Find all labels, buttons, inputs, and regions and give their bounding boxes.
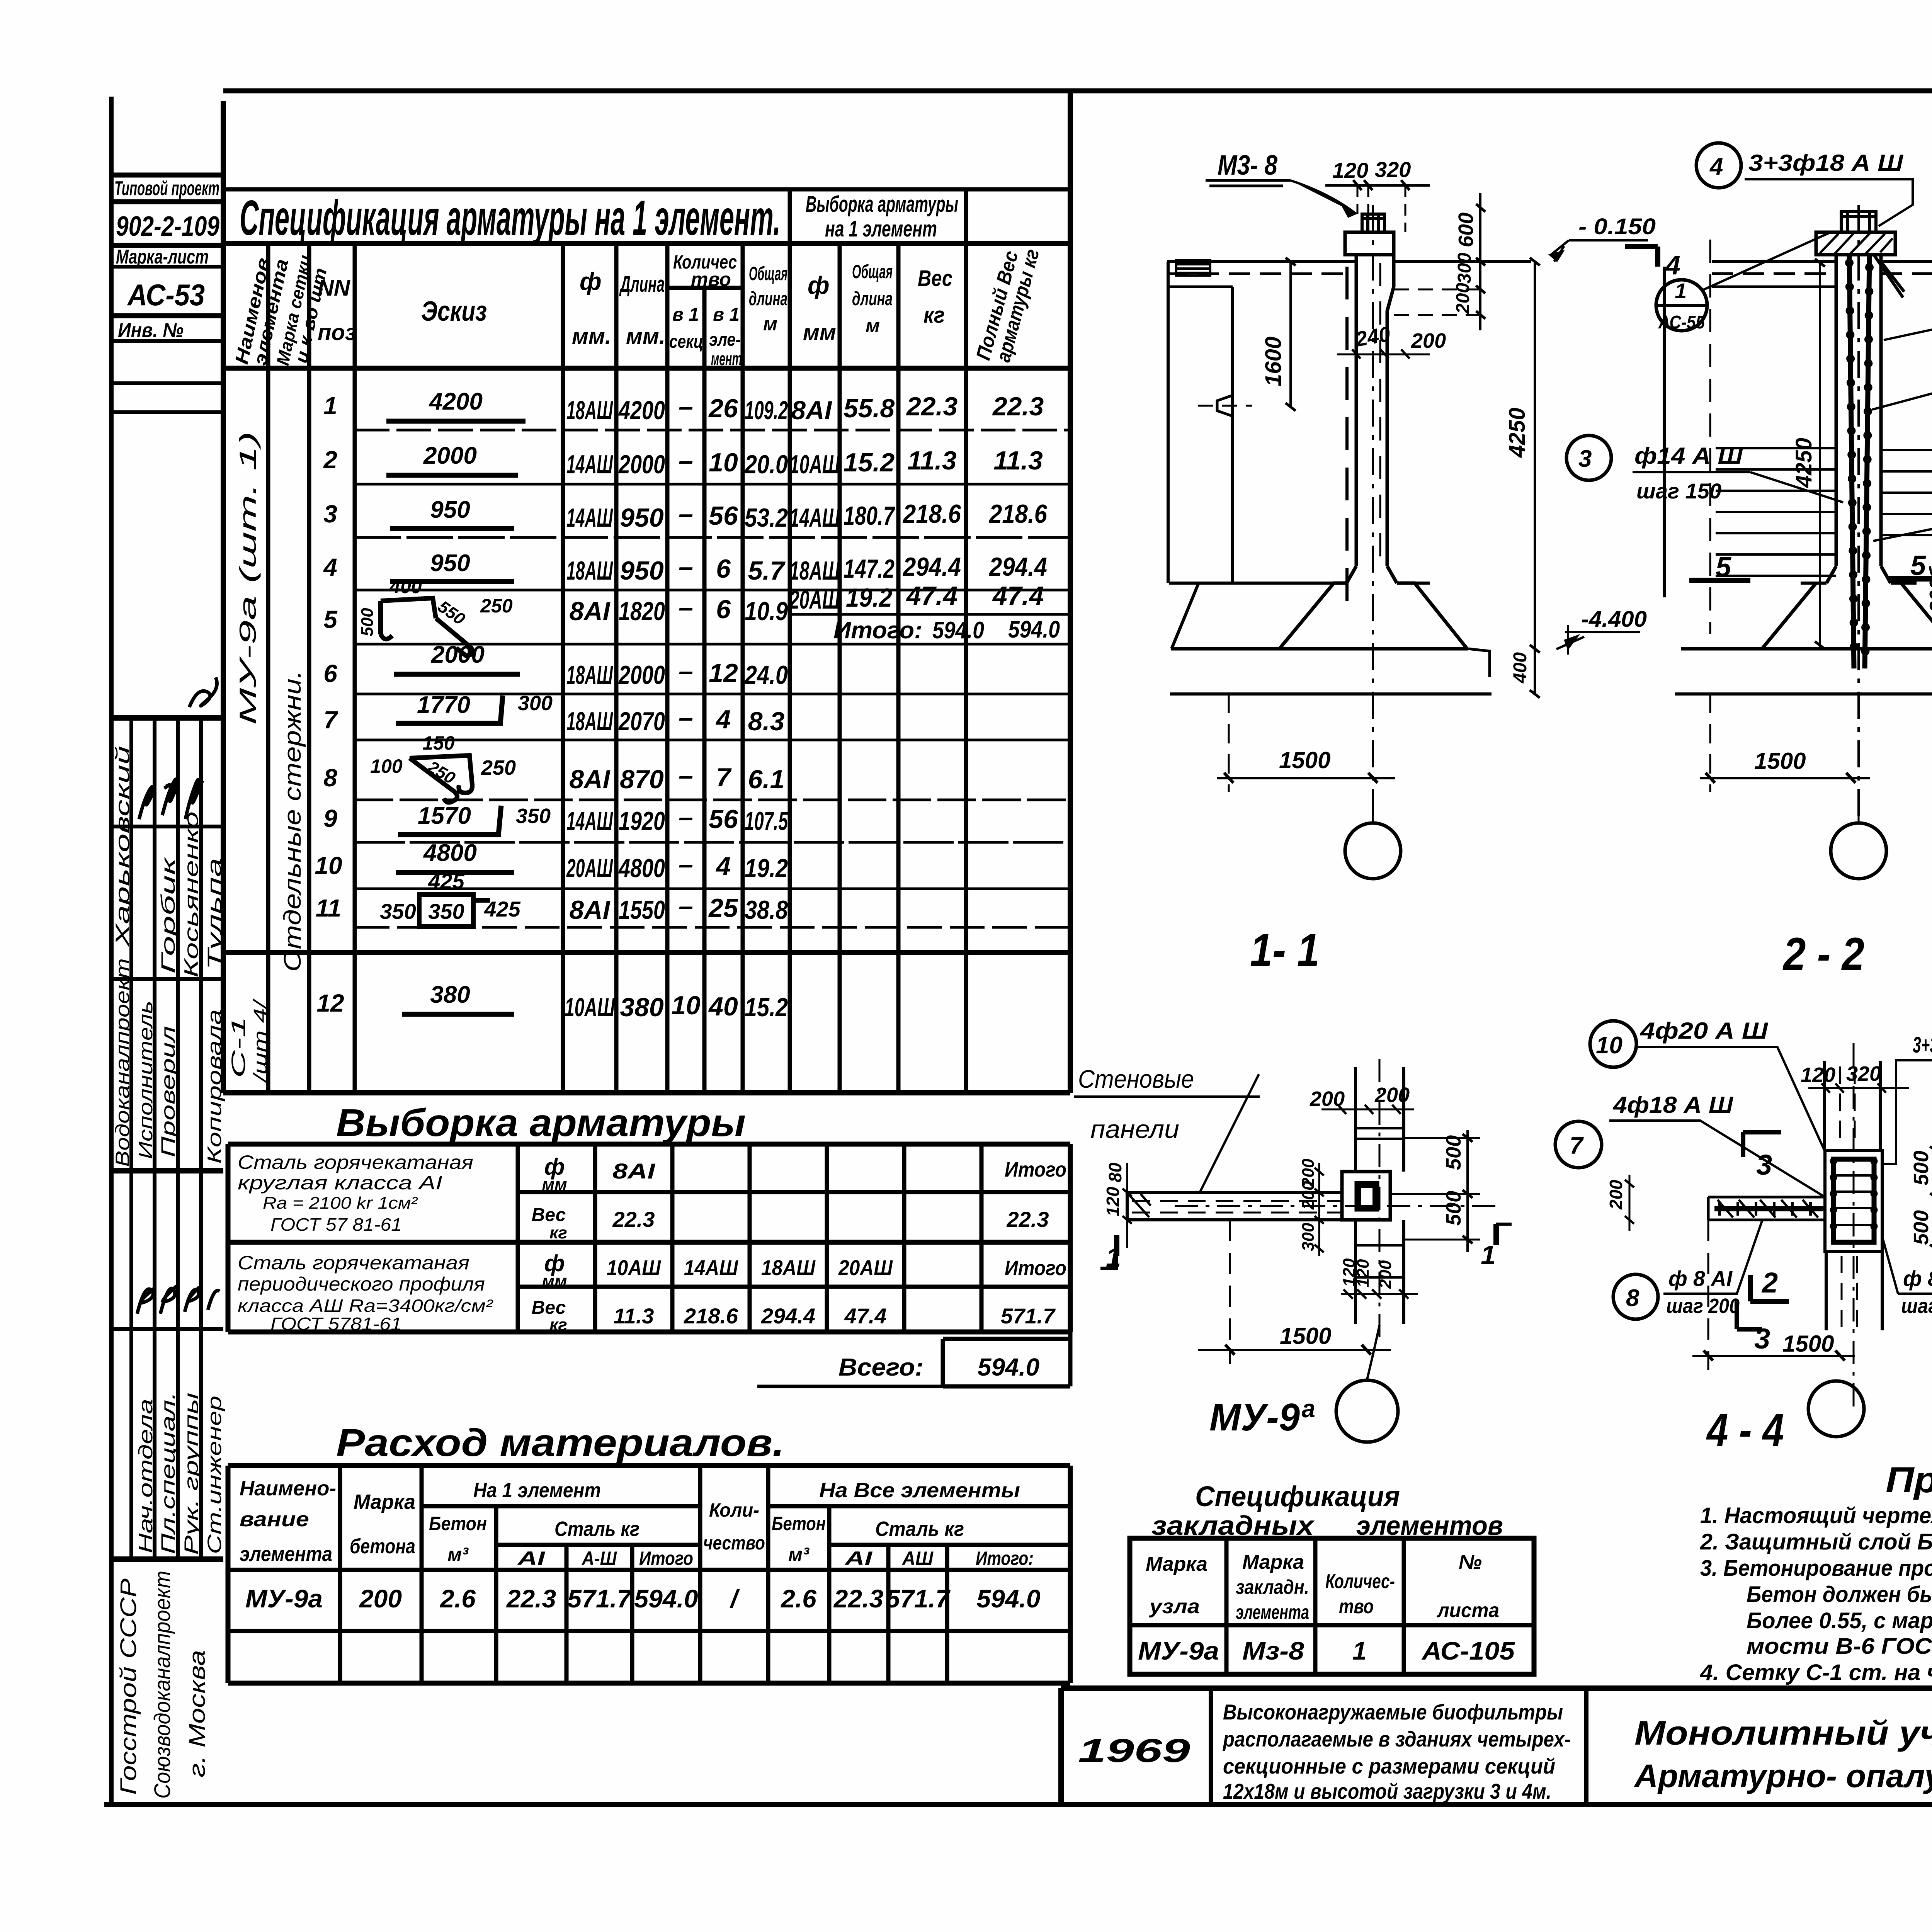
svg-text:1500: 1500 — [1279, 747, 1330, 773]
svg-text:ГОСТ 57 81-61: ГОСТ 57 81-61 — [270, 1214, 402, 1235]
svg-text:571.7: 571.7 — [567, 1584, 632, 1613]
svg-text:200: 200 — [1374, 1083, 1410, 1107]
svg-text:200: 200 — [1606, 1180, 1626, 1210]
svg-text:14АШ: 14АШ — [566, 806, 613, 836]
svg-text:в 1: в 1 — [713, 304, 740, 325]
svg-text:500: 500 — [1910, 1151, 1932, 1185]
svg-text:200: 200 — [359, 1584, 402, 1613]
svg-text:4ф18 А Ш: 4ф18 А Ш — [1613, 1092, 1733, 1118]
svg-text:Спецификация: Спецификация — [1195, 1480, 1400, 1512]
svg-text:м: м — [763, 313, 777, 335]
svg-text:1500: 1500 — [1782, 1331, 1834, 1357]
svg-text:350: 350 — [428, 899, 464, 923]
svg-text:22.3: 22.3 — [612, 1207, 655, 1231]
svg-text:Ст.инженер: Ст.инженер — [204, 1396, 225, 1554]
svg-text:571.7: 571.7 — [1001, 1304, 1056, 1328]
svg-text:2000: 2000 — [431, 641, 485, 668]
svg-text:22.3: 22.3 — [1007, 1207, 1049, 1231]
svg-text:4: 4 — [1709, 153, 1723, 180]
svg-text:10АШ: 10АШ — [789, 450, 840, 479]
svg-text:кг: кг — [549, 1223, 567, 1242]
svg-text:19.2: 19.2 — [745, 854, 788, 883]
svg-text:–: – — [679, 703, 693, 732]
svg-text:18АШ: 18АШ — [761, 1255, 816, 1280]
svg-text:Союзводоканалпроект: Союзводоканалпроект — [150, 1571, 175, 1799]
svg-text:47.4: 47.4 — [992, 581, 1044, 611]
svg-text:А-Ш: А-Ш — [581, 1548, 617, 1569]
svg-text:3: 3 — [1754, 1323, 1770, 1355]
svg-text:4250: 4250 — [1791, 438, 1816, 488]
svg-text:380: 380 — [620, 993, 664, 1022]
svg-text:Проверил: Проверил — [157, 1026, 179, 1157]
svg-text:10: 10 — [671, 991, 701, 1020]
svg-text:218.6: 218.6 — [684, 1304, 738, 1328]
svg-text:Исполнитель: Исполнитель — [135, 1001, 156, 1159]
svg-text:56: 56 — [709, 501, 738, 531]
svg-text:NN: NN — [318, 276, 350, 301]
svg-text:Итого:: Итого: — [976, 1548, 1034, 1569]
svg-text:АС-105: АС-105 — [1421, 1636, 1515, 1665]
svg-text:элемента: элемента — [1236, 1601, 1309, 1624]
svg-text:20АШ: 20АШ — [566, 854, 613, 883]
svg-text:4: 4 — [323, 553, 337, 581]
svg-text:18АШ: 18АШ — [566, 396, 613, 425]
svg-text:М3- 8: М3- 8 — [1218, 150, 1277, 181]
svg-text:Сталь горячекатаная: Сталь горячекатаная — [238, 1151, 473, 1173]
svg-text:1550: 1550 — [619, 895, 665, 925]
svg-text:6: 6 — [716, 554, 731, 583]
svg-text:круглая класса АI: круглая класса АI — [238, 1172, 442, 1194]
svg-text:15.2: 15.2 — [844, 448, 895, 477]
svg-text:11: 11 — [316, 894, 341, 922]
svg-text:200: 200 — [1376, 1260, 1395, 1289]
svg-text:4200: 4200 — [618, 396, 665, 425]
svg-text:шаг 150: шаг 150 — [1636, 479, 1721, 503]
svg-text:950: 950 — [620, 503, 664, 532]
svg-text:594.0: 594.0 — [634, 1584, 698, 1613]
svg-text:Марка: Марка — [354, 1490, 415, 1514]
svg-text:870: 870 — [620, 765, 664, 794]
svg-text:8АI: 8АI — [570, 895, 611, 925]
svg-text:МУ-9ª: МУ-9ª — [1209, 1396, 1315, 1439]
svg-text:1. Настоящий чертеж расст: 1. Настоящий чертеж расстатривать совмес… — [1700, 1503, 1932, 1528]
svg-text:7: 7 — [323, 706, 338, 734]
svg-text:55.8: 55.8 — [844, 394, 895, 423]
svg-text:Горбик: Горбик — [157, 856, 179, 974]
svg-text:5: 5 — [323, 605, 338, 633]
svg-text:5: 5 — [1716, 552, 1731, 583]
svg-text:1500: 1500 — [1754, 748, 1806, 774]
svg-text:120: 120 — [1801, 1063, 1835, 1087]
svg-text:Всего:: Всего: — [838, 1353, 923, 1381]
svg-text:Бетон должен быть плотным,: Бетон должен быть плотным, с водоцементн… — [1747, 1582, 1932, 1607]
svg-text:г. Москва: г. Москва — [185, 1650, 210, 1777]
svg-text:425: 425 — [428, 869, 464, 893]
svg-text:12х18м и высотой загрузки: 12х18м и высотой загрузки 3 и 4м. — [1223, 1779, 1551, 1803]
svg-text:1: 1 — [1352, 1636, 1367, 1665]
svg-text:19.2: 19.2 — [846, 583, 892, 612]
svg-text:№: № — [1459, 1551, 1482, 1573]
svg-text:250: 250 — [481, 756, 516, 779]
svg-text:-4.400: -4.400 — [1581, 607, 1647, 632]
svg-text:МУ-9а: МУ-9а — [245, 1584, 323, 1613]
svg-text:8АI: 8АI — [612, 1159, 656, 1183]
svg-text:Сталь кг: Сталь кг — [875, 1517, 964, 1541]
svg-text:120: 120 — [1354, 1259, 1372, 1287]
svg-text:22.3: 22.3 — [833, 1584, 883, 1613]
svg-text:1770: 1770 — [417, 692, 470, 718]
svg-text:3: 3 — [1756, 1149, 1772, 1181]
svg-text:поз: поз — [318, 320, 356, 345]
svg-text:1820: 1820 — [619, 597, 665, 626]
svg-text:- 0.150: - 0.150 — [1578, 214, 1656, 239]
svg-text:107.5: 107.5 — [745, 806, 788, 836]
svg-text:чество: чество — [703, 1532, 765, 1554]
svg-text:тво: тво — [691, 269, 731, 290]
svg-text:2000: 2000 — [423, 442, 477, 469]
svg-text:12: 12 — [316, 989, 344, 1017]
svg-text:8АI: 8АI — [791, 396, 833, 425]
svg-text:Выборка арматуры: Выборка арматуры — [806, 192, 958, 217]
svg-text:Монолитный участок МУ-9а.: Монолитный участок МУ-9а. — [1634, 1714, 1932, 1752]
svg-text:панели: панели — [1090, 1115, 1179, 1143]
svg-text:14АШ: 14АШ — [684, 1255, 738, 1280]
svg-text:–: – — [679, 499, 693, 529]
svg-text:320: 320 — [1846, 1062, 1881, 1085]
svg-text:4: 4 — [715, 705, 731, 734]
svg-text:1920: 1920 — [619, 806, 665, 836]
svg-text:2000: 2000 — [618, 660, 665, 690]
svg-text:кг: кг — [923, 303, 945, 328]
svg-text:Марка-лист: Марка-лист — [116, 246, 209, 268]
svg-text:Пл.специал.: Пл.специал. — [157, 1392, 179, 1554]
svg-text:20АШ: 20АШ — [789, 585, 840, 614]
svg-text:200: 200 — [1453, 283, 1473, 314]
svg-text:Мз-8: Мз-8 — [1242, 1636, 1304, 1665]
svg-text:АС-53: АС-53 — [127, 278, 205, 312]
svg-text:120: 120 — [1103, 1187, 1123, 1216]
svg-text:594.0: 594.0 — [1008, 616, 1060, 643]
svg-text:мент: мент — [711, 349, 742, 369]
svg-text:147.2: 147.2 — [844, 554, 895, 583]
svg-text:кг: кг — [549, 1315, 567, 1334]
svg-text:м³: м³ — [447, 1544, 469, 1565]
svg-text:10: 10 — [1596, 1032, 1622, 1059]
svg-text:10: 10 — [709, 448, 738, 477]
svg-text:300: 300 — [518, 692, 553, 715]
svg-text:мм: мм — [542, 1272, 567, 1291]
svg-text:Бетон: Бетон — [429, 1513, 487, 1534]
svg-text:950: 950 — [620, 556, 664, 585]
svg-text:Итого: Итого — [1005, 1257, 1066, 1280]
svg-text:располагаемые в зданиях чет: располагаемые в зданиях четырех- — [1222, 1727, 1571, 1751]
svg-text:6: 6 — [716, 595, 731, 624]
svg-text:2: 2 — [323, 446, 337, 474]
svg-text:2: 2 — [1761, 1267, 1778, 1299]
svg-text:Вес: Вес — [532, 1205, 566, 1225]
svg-text:–: – — [679, 593, 693, 622]
svg-text:–: – — [679, 552, 693, 582]
svg-text:Ra = 2100 kr 1см²: Ra = 2100 kr 1см² — [263, 1194, 418, 1213]
svg-text:ф: ф — [808, 271, 830, 299]
svg-text:14АШ: 14АШ — [566, 503, 613, 532]
svg-text:902-2-109: 902-2-109 — [116, 211, 219, 242]
svg-text:Более 0.55, с маркой по мо: Более 0.55, с маркой по морозостойкости … — [1747, 1608, 1932, 1633]
svg-text:шаг 200: шаг 200 — [1666, 1294, 1740, 1318]
svg-text:80: 80 — [1105, 1162, 1125, 1182]
svg-text:400: 400 — [389, 576, 422, 597]
svg-text:20.0: 20.0 — [744, 450, 788, 479]
svg-text:180.7: 180.7 — [844, 501, 895, 531]
svg-text:10АШ: 10АШ — [565, 993, 615, 1022]
svg-text:22.3: 22.3 — [906, 392, 958, 421]
svg-text:3: 3 — [323, 500, 337, 528]
svg-text:1: 1 — [1675, 279, 1687, 303]
svg-text:150: 150 — [422, 732, 455, 754]
svg-text:шаг 200: шаг 200 — [1901, 1294, 1932, 1318]
svg-text:Стеновые: Стеновые — [1078, 1065, 1194, 1093]
svg-text:МУ-9а (шт. 1): МУ-9а (шт. 1) — [235, 431, 261, 725]
svg-text:Марка: Марка — [1242, 1551, 1304, 1573]
svg-text:Рук. группы: Рук. группы — [180, 1393, 202, 1555]
svg-text:тво: тво — [1339, 1595, 1374, 1618]
svg-text:Арматурно- опалубочный чертеж: Арматурно- опалубочный чертеж. — [1634, 1758, 1932, 1794]
svg-text:12: 12 — [709, 658, 738, 688]
svg-text:2000: 2000 — [618, 450, 665, 479]
svg-text:250: 250 — [480, 595, 513, 617]
svg-text:Наимено-: Наимено- — [240, 1477, 336, 1500]
svg-text:2.6: 2.6 — [439, 1584, 476, 1613]
svg-text:Коли-: Коли- — [709, 1499, 759, 1521]
svg-text:7: 7 — [716, 763, 732, 792]
svg-text:–: – — [679, 392, 693, 421]
svg-text:Количес-: Количес- — [1325, 1570, 1395, 1593]
svg-text:8: 8 — [323, 764, 337, 792]
svg-text:Эскиз: Эскиз — [421, 296, 487, 327]
svg-text:узла: узла — [1148, 1595, 1200, 1618]
svg-text:200: 200 — [1411, 329, 1446, 352]
svg-text:в 1: в 1 — [672, 304, 699, 325]
svg-text:4ф20 А Ш: 4ф20 А Ш — [1640, 1018, 1769, 1044]
svg-text:8: 8 — [1626, 1285, 1639, 1311]
svg-text:–: – — [679, 803, 693, 832]
svg-text:Итого: Итого — [639, 1548, 693, 1569]
svg-text:2070: 2070 — [618, 707, 665, 736]
svg-text:4800: 4800 — [618, 854, 665, 883]
svg-text:Госстрой СССР: Госстрой СССР — [116, 1578, 141, 1795]
svg-text:эле-: эле- — [709, 330, 741, 350]
svg-text:Высоконагружаемые биофильтры: Высоконагружаемые биофильтры — [1223, 1700, 1563, 1724]
svg-text:1600: 1600 — [1261, 337, 1286, 386]
svg-text:56: 56 — [709, 804, 738, 834]
svg-text:8АI: 8АI — [570, 597, 611, 626]
svg-text:Отдельные стержни.: Отдельные стержни. — [279, 670, 306, 972]
svg-text:закладн.: закладн. — [1236, 1576, 1309, 1599]
svg-text:380: 380 — [430, 981, 470, 1008]
svg-text:м: м — [866, 315, 880, 337]
svg-text:секционные с размерами секц: секционные с размерами секций — [1223, 1754, 1555, 1778]
svg-text:24.0: 24.0 — [744, 660, 788, 690]
svg-text:мм: мм — [803, 320, 836, 345]
svg-text:294.4: 294.4 — [902, 552, 961, 582]
svg-text:7: 7 — [1570, 1133, 1584, 1159]
svg-text:ф14 А Ш: ф14 А Ш — [1634, 443, 1743, 469]
svg-text:бетона: бетона — [350, 1535, 415, 1558]
svg-text:ф 8 АI: ф 8 АI — [1668, 1266, 1733, 1291]
svg-text:500: 500 — [1442, 1135, 1465, 1170]
svg-text:200б: 200б — [1926, 566, 1932, 613]
svg-text:26: 26 — [708, 394, 738, 423]
svg-text:571.7: 571.7 — [886, 1584, 951, 1613]
svg-text:47.4: 47.4 — [906, 581, 957, 611]
svg-text:4800: 4800 — [423, 840, 477, 866]
svg-text:18АШ: 18АШ — [566, 556, 613, 585]
svg-text:18АШ: 18АШ — [566, 707, 613, 736]
svg-text:11.3: 11.3 — [614, 1304, 654, 1328]
svg-text:40: 40 — [708, 992, 738, 1021]
svg-text:14АШ: 14АШ — [566, 450, 613, 479]
svg-text:длина: длина — [749, 288, 787, 310]
svg-text:–: – — [679, 446, 693, 475]
svg-text:3: 3 — [1578, 446, 1592, 472]
svg-text:/шт 4/: /шт 4/ — [250, 998, 271, 1083]
svg-text:МУ-9а: МУ-9а — [1138, 1636, 1219, 1665]
svg-text:53.2: 53.2 — [745, 503, 788, 532]
svg-text:мм: мм — [542, 1175, 567, 1194]
svg-text:8АI: 8АI — [570, 765, 611, 794]
svg-text:класса АШ Ra=3400кг/см²: класса АШ Ra=3400кг/см² — [238, 1296, 493, 1316]
svg-text:4250: 4250 — [1505, 408, 1530, 458]
svg-text:Водоканалпроект: Водоканалпроект — [112, 958, 133, 1167]
svg-text:Примечания :: Примечания : — [1886, 1459, 1932, 1500]
svg-text:Итого:: Итого: — [833, 617, 922, 644]
svg-text:На Все элементы: На Все элементы — [819, 1479, 1020, 1502]
svg-text:3. Бетонирование производи: 3. Бетонирование производить с тщательны… — [1700, 1556, 1932, 1581]
svg-text:200: 200 — [1299, 1181, 1318, 1210]
svg-text:10: 10 — [315, 852, 342, 879]
svg-text:14АШ: 14АШ — [789, 503, 840, 532]
svg-text:На 1 элемент: На 1 элемент — [473, 1479, 601, 1502]
svg-text:22.3: 22.3 — [506, 1584, 556, 1613]
svg-text:47.4: 47.4 — [844, 1304, 887, 1328]
svg-text:2 - 2: 2 - 2 — [1782, 928, 1864, 980]
svg-text:10АШ: 10АШ — [607, 1255, 661, 1280]
svg-text:Марка: Марка — [1146, 1553, 1207, 1575]
svg-text:Косьяненко: Косьяненко — [180, 811, 202, 978]
svg-text:листа: листа — [1436, 1599, 1499, 1622]
svg-text:400: 400 — [1510, 652, 1531, 684]
svg-text:18АШ: 18АШ — [566, 660, 613, 690]
svg-text:Вес: Вес — [918, 266, 952, 291]
svg-text:ГОСТ 5781-61: ГОСТ 5781-61 — [270, 1314, 402, 1334]
svg-text:1500: 1500 — [1280, 1323, 1331, 1349]
svg-text:4: 4 — [1665, 250, 1680, 280]
svg-text:950: 950 — [430, 497, 470, 523]
svg-text:Сталь кг: Сталь кг — [554, 1517, 639, 1541]
svg-text:300: 300 — [1299, 1223, 1318, 1251]
svg-text:350: 350 — [516, 804, 551, 828]
svg-text:9: 9 — [323, 804, 337, 832]
svg-text:294.4: 294.4 — [761, 1304, 815, 1328]
svg-text:Итого: Итого — [1005, 1158, 1066, 1181]
svg-text:Расход материалов.: Расход материалов. — [336, 1421, 784, 1464]
svg-text:18АШ: 18АШ — [789, 556, 840, 585]
svg-text:периодического профиля: периодического профиля — [238, 1273, 485, 1295]
svg-text:1- 1: 1- 1 — [1250, 924, 1320, 976]
svg-text:294.4: 294.4 — [988, 552, 1047, 582]
svg-text:10.9: 10.9 — [745, 597, 788, 626]
svg-text:Общая: Общая — [852, 261, 893, 282]
svg-text:6.1: 6.1 — [748, 765, 785, 794]
svg-text:1: 1 — [1106, 1242, 1121, 1272]
svg-text:1: 1 — [1481, 1240, 1496, 1270]
svg-text:15.2: 15.2 — [745, 993, 788, 1022]
svg-text:425: 425 — [484, 897, 520, 921]
svg-text:11.3: 11.3 — [993, 446, 1043, 475]
svg-text:АI: АI — [517, 1548, 545, 1569]
svg-text:300: 300 — [1454, 253, 1475, 284]
svg-text:594.0: 594.0 — [976, 1584, 1040, 1613]
svg-text:1: 1 — [323, 392, 337, 420]
svg-text:длина: длина — [852, 288, 893, 310]
svg-text:–: – — [679, 656, 693, 686]
svg-text:АI: АI — [844, 1548, 872, 1569]
svg-text:11.3: 11.3 — [907, 446, 956, 475]
svg-text:320: 320 — [1375, 157, 1411, 182]
svg-text:3+3ф18 АШ: 3+3ф18 АШ — [1913, 1032, 1932, 1058]
svg-text:109.2: 109.2 — [745, 396, 788, 425]
svg-text:500: 500 — [358, 608, 377, 636]
svg-text:элемента: элемента — [240, 1543, 332, 1566]
svg-text:594.0: 594.0 — [932, 617, 984, 644]
svg-text:218.6: 218.6 — [988, 499, 1048, 529]
svg-text:1969: 1969 — [1078, 1732, 1190, 1769]
svg-text:м³: м³ — [788, 1544, 810, 1565]
svg-text:4200: 4200 — [429, 388, 483, 415]
svg-text:–: – — [679, 850, 693, 879]
svg-text:Бетон: Бетон — [772, 1513, 826, 1534]
svg-text:Нач.отдела: Нач.отдела — [135, 1399, 156, 1553]
svg-text:ф: ф — [580, 267, 602, 295]
svg-text:4. Сетку С-1 ст. на черте: 4. Сетку С-1 ст. на чертеже АС-55. — [1700, 1660, 1932, 1685]
svg-text:Длина: Длина — [619, 272, 665, 297]
svg-text:218.6: 218.6 — [902, 499, 961, 529]
svg-text:–: – — [679, 891, 693, 921]
svg-text:Типовой проект: Типовой проект — [114, 177, 219, 200]
svg-text:500: 500 — [1442, 1191, 1465, 1226]
svg-text:8.3: 8.3 — [748, 707, 785, 736]
svg-text:350: 350 — [380, 899, 416, 923]
svg-text:5.7: 5.7 — [748, 556, 786, 585]
svg-text:С-1: С-1 — [228, 1016, 249, 1078]
svg-text:на 1 элемент: на 1 элемент — [825, 216, 937, 241]
svg-text:вание: вание — [240, 1508, 309, 1531]
svg-text:3+3ф18 А Ш: 3+3ф18 А Ш — [1748, 150, 1903, 176]
svg-text:38.8: 38.8 — [745, 895, 788, 925]
svg-text:мости В-6 ГОСТ 4800-59.: мости В-6 ГОСТ 4800-59. — [1747, 1634, 1932, 1659]
svg-text:Спецификация арматуры на 1 э: Спецификация арматуры на 1 элемент. — [240, 190, 781, 246]
svg-text:4 - 4: 4 - 4 — [1706, 1404, 1784, 1456]
svg-text:Инв. №: Инв. № — [118, 319, 184, 342]
svg-text:Сталь горячекатаная: Сталь горячекатаная — [238, 1252, 469, 1274]
svg-text:6: 6 — [323, 660, 337, 687]
svg-text:500: 500 — [1910, 1210, 1932, 1245]
svg-text:25: 25 — [708, 893, 738, 923]
svg-text:мм.: мм. — [626, 324, 665, 349]
svg-text:5: 5 — [1910, 550, 1926, 581]
svg-text:Выборка арматуры: Выборка арматуры — [336, 1101, 746, 1145]
svg-text:–: – — [679, 761, 693, 790]
